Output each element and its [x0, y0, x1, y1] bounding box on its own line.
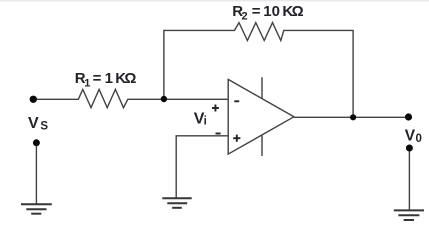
svg-text:0: 0: [416, 133, 422, 145]
svg-text:S: S: [40, 120, 48, 132]
svg-text:1: 1: [105, 70, 113, 87]
svg-text:V: V: [405, 128, 416, 145]
svg-text:2: 2: [242, 10, 248, 22]
svg-text:=: =: [252, 3, 261, 20]
svg-text:Ω: Ω: [292, 3, 304, 20]
svg-text:V: V: [28, 115, 39, 132]
svg-text:10: 10: [263, 3, 280, 20]
svg-text:Ω: Ω: [124, 70, 136, 87]
svg-text:1: 1: [84, 77, 90, 89]
svg-text:i: i: [204, 116, 207, 128]
svg-text:=: =: [93, 70, 102, 87]
